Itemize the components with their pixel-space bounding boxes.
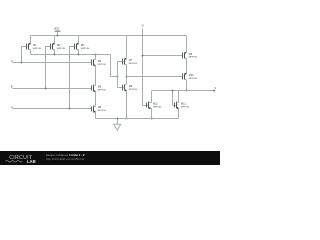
wire M3 source to rail [78,36,80,44]
wire M5-M6 [95,92,97,107]
wire M4 drain [95,55,97,60]
junction gnd stub [117,118,119,120]
svg-text:M7: M7 [129,59,133,62]
junction A/M1 gate [21,62,23,64]
svg-text:MFP530: MFP530 [33,48,42,50]
junction B/M2 gate [45,88,47,90]
svg-text:M9: M9 [129,85,133,88]
wire N1 to inverter gates [111,76,118,78]
wire M7 gate lead [118,61,124,63]
footer bar [0,151,220,165]
wire M6 source to ground bus [95,112,97,119]
junction N1/M3 drain [78,54,80,56]
transistor M6 NMOS [92,106,107,113]
junction C/M3 gate [69,108,71,110]
wire M10 drain to F bus [186,80,188,91]
svg-text:VDD: VDD [54,28,59,31]
svg-text:D: D [142,23,144,27]
wire output F bus [152,90,215,92]
wire node N1 bus [31,54,111,56]
svg-text:MFP530: MFP530 [189,57,198,59]
wire N2 to M10 gate [127,76,183,78]
wire M7/M9 gate tie [117,62,119,88]
svg-text:http://circuitlab.com/c65bzna: http://circuitlab.com/c65bzna [46,157,84,161]
transistor M9 NMOS [123,85,138,92]
transistor M2 PMOS [51,43,66,50]
wire M9 gate lead [118,87,124,89]
wire M2 gate lead [46,46,52,48]
junction N1/M4 drain [95,54,97,56]
wire N1 drop [110,55,112,77]
junction F/M10 [186,90,188,92]
wire M4-M5 [95,66,97,86]
svg-text:M6: M6 [98,106,102,109]
svg-text:B: B [11,85,13,89]
svg-text:MFP530: MFP530 [81,48,90,50]
node F pin [213,90,215,92]
wire input A [13,62,92,64]
svg-text:MFP530: MFP530 [98,64,107,66]
wire M2 source to rail [54,36,56,44]
wire input B [13,88,92,90]
wire M2 drain to N1 bus [54,50,56,55]
svg-text:M1: M1 [33,44,37,47]
svg-text:MFP530: MFP530 [129,63,138,65]
wire M1 gate lead [22,46,28,48]
svg-text:M11: M11 [153,103,158,106]
transistor M7 PMOS [123,58,138,65]
transistor M8 PMOS [183,52,198,59]
svg-text:M3: M3 [81,44,85,47]
transistor M4 NMOS [92,60,107,67]
svg-text:M8: M8 [189,53,193,56]
svg-text:MFP530: MFP530 [181,106,190,108]
svg-text:M5: M5 [98,86,102,89]
wire M1 source to rail [30,36,32,44]
wire M9 source to ground bus [126,91,128,119]
wire M11 drain to F bus [151,91,153,103]
wire ground bus [96,118,179,120]
svg-text:MFP530: MFP530 [153,106,162,108]
svg-text:MFP530: MFP530 [189,78,198,80]
junction VDD-rail [57,35,59,37]
junction D/M8 gate [142,55,144,57]
junction gnd/M11 [151,118,153,120]
svg-text:M4: M4 [98,60,102,63]
wire M12 gate tap [172,91,174,106]
transistor M5 NMOS [92,85,107,92]
wire M1 gate to A [21,47,23,63]
wire M11 gate lead [143,105,148,107]
wire M8-M10 [186,59,188,74]
svg-text:A: A [11,59,13,63]
wire M12 drain to F bus [178,91,180,103]
wire input C [13,108,92,110]
wire M3 drain to N1 bus [78,50,80,55]
wire M12 gate lead [173,105,176,107]
transistor M12 NMOS [175,102,190,109]
ground [114,124,121,130]
wire M11 source to gnd [151,109,153,119]
transistor M10 PMOS [183,73,198,80]
footer credit text [46,153,85,161]
wire M3 gate lead [70,46,76,48]
wire M8 source to rail [186,36,188,53]
wire M7 source to rail [126,36,128,59]
wire M1 drain to N1 bus [30,50,32,55]
svg-text:MFP530: MFP530 [98,90,107,92]
transistor M1 PMOS [27,43,42,50]
wire M2 gate to B [45,47,47,89]
wire net D vertical [142,29,144,106]
CircuitLab logo [6,155,36,164]
junction N1/M2 drain [54,54,56,56]
svg-text:M12: M12 [181,103,186,106]
svg-text:C: C [11,105,13,109]
wire VDD rail [31,35,187,37]
wire M7-M9 node N2 [126,65,128,85]
transistor M11 NMOS [147,102,163,109]
svg-text:LAB: LAB [27,159,36,164]
svg-text:MFP530: MFP530 [57,48,66,50]
svg-text:MFP530: MFP530 [98,110,107,112]
junction F/M12 gate [172,90,174,92]
power supply VDD [54,28,61,36]
wire ground stub [117,119,119,125]
svg-text:M2: M2 [57,44,61,47]
wire M12 source to gnd [178,109,180,119]
svg-text:MFP530: MFP530 [129,89,138,91]
wire M3 gate to C [69,47,71,109]
junction gnd/M9 [126,118,128,120]
svg-text:M10: M10 [189,74,194,77]
junction N2 out [126,76,128,78]
junction inverter gate tie [117,76,119,78]
transistor M3 PMOS [75,43,90,50]
wire D to M8 gate [143,55,183,57]
